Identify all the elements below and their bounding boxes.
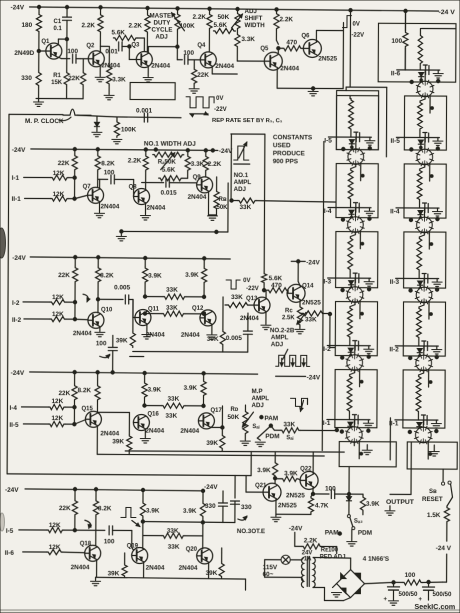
- svg-text:3.9K: 3.9K: [148, 273, 162, 280]
- svg-text:330: 330: [205, 503, 216, 510]
- svg-text:II-2: II-2: [12, 317, 22, 324]
- ground bridge: [331, 584, 341, 597]
- svg-text:39K: 39K: [108, 570, 120, 577]
- wire vertical x252: [250, 452, 252, 476]
- svg-text:2N404: 2N404: [71, 564, 90, 571]
- wire II-6 set line: [429, 95, 431, 113]
- svg-text:33K: 33K: [166, 287, 178, 294]
- ground II-5: [433, 138, 443, 146]
- wire Q22 collector: [312, 452, 314, 473]
- wire Q4 emitter: [212, 67, 237, 74]
- svg-text:-24V: -24V: [11, 370, 25, 377]
- node cell I-3 box: [336, 232, 378, 288]
- wire Q16 emitter: [144, 429, 146, 437]
- resistor RB 50K: [214, 177, 228, 211]
- svg-text:-22V: -22V: [351, 33, 364, 39]
- transistor I-3 cell: [346, 286, 364, 304]
- transistor I-4 cell: [347, 216, 365, 234]
- node I-4 label: [324, 208, 332, 215]
- transistor II-5 cell: [416, 148, 434, 166]
- svg-text:2N404: 2N404: [146, 205, 165, 212]
- resistor 3.9K row4 b: [183, 373, 206, 406]
- svg-text:0V: 0V: [216, 96, 223, 102]
- transistor I-2 cell: [346, 354, 364, 372]
- svg-text:0.01: 0.01: [105, 48, 118, 55]
- svg-text:PAM: PAM: [264, 415, 278, 422]
- wire I-1 set line: [358, 441, 360, 459]
- resistor 8.2K row4: [77, 372, 100, 412]
- svg-text:2N525: 2N525: [318, 55, 337, 62]
- node PAM ped: [325, 529, 342, 536]
- wire I column top entry: [346, 87, 387, 91]
- svg-text:Q17: Q17: [210, 408, 222, 414]
- wire II-3 gate row: [396, 277, 439, 279]
- svg-text:OUTPUT: OUTPUT: [386, 499, 415, 506]
- wire -24V rail 2: [31, 147, 218, 152]
- svg-text:5.6K: 5.6K: [269, 275, 283, 282]
- ground Q16: [140, 439, 150, 443]
- resistor II-5 coupling: [417, 97, 425, 138]
- node II-6 label: [391, 70, 401, 77]
- ground Q9: [207, 216, 217, 220]
- diode I-1: [348, 420, 355, 427]
- svg-text:22K: 22K: [59, 390, 71, 397]
- svg-text:ADJ: ADJ: [234, 186, 247, 193]
- svg-text:2N404: 2N404: [100, 430, 119, 437]
- svg-text:PRODUCE: PRODUCE: [273, 150, 306, 157]
- resistor 5.6K to shift pot: [213, 14, 235, 34]
- resistor 12K II-5: [48, 420, 85, 427]
- capacitor C1 0.1: [53, 7, 71, 39]
- svg-text:NO.1 WIDTH ADJ: NO.1 WIDTH ADJ: [144, 141, 196, 148]
- potentiometer RD 50K: [227, 405, 253, 440]
- svg-text:I-5: I-5: [6, 528, 14, 535]
- capacitor 100 coupling Q3-Q4: [177, 47, 200, 65]
- svg-text:33K: 33K: [231, 294, 243, 301]
- svg-text:180: 180: [21, 22, 32, 29]
- node ADJ SHIFT WIDTH: [244, 8, 265, 29]
- svg-text:100: 100: [104, 538, 115, 545]
- resistor 2.2K Q5: [274, 9, 294, 40]
- svg-text:CONSTANTS: CONSTANTS: [273, 134, 313, 141]
- resistor 33K row5: [143, 522, 203, 551]
- wire I-2 gate row: [327, 345, 370, 347]
- node II-2 label: [389, 346, 399, 353]
- node switch SA2: [347, 515, 372, 537]
- resistor 2.2K Q4: [192, 9, 212, 52]
- capacitor 0.01 coupling Q2-Q3: [105, 42, 136, 60]
- svg-text:I-1: I-1: [12, 175, 20, 182]
- resistor 12K II-6: [47, 549, 85, 554]
- wire Q7 emitter: [98, 202, 100, 212]
- transistor Q2 2N404: [80, 43, 120, 69]
- svg-text:22K: 22K: [197, 72, 209, 79]
- wire Q22 emitter: [311, 487, 314, 496]
- svg-text:WIDTH: WIDTH: [244, 22, 265, 29]
- resistor 39K row4 b: [206, 406, 225, 451]
- wire Q9 emitter: [208, 191, 216, 215]
- wire Q10 collector: [96, 294, 123, 313]
- svg-text:I-5: I-5: [324, 137, 332, 144]
- resistor 3.3K: [104, 46, 126, 100]
- potentiometer RC 2.5K: [282, 300, 306, 328]
- svg-text:3.9K: 3.9K: [148, 387, 162, 394]
- svg-text:0V: 0V: [243, 278, 250, 284]
- svg-text:I-2: I-2: [12, 300, 20, 307]
- svg-text:-24V: -24V: [12, 255, 26, 262]
- wire I col bottom drop: [354, 442, 411, 454]
- node II-1 label: [389, 420, 399, 427]
- potentiometer 100K: [171, 8, 195, 46]
- resistor 4.7K: [308, 494, 329, 515]
- wire II-5 gate row: [396, 136, 439, 138]
- wire row4 bottom bus: [125, 451, 344, 452]
- svg-text:22K: 22K: [59, 505, 71, 512]
- wire clock bus: [77, 115, 181, 118]
- svg-text:3.9K: 3.9K: [146, 508, 160, 515]
- svg-text:II-2: II-2: [389, 346, 399, 353]
- node -24V label left: [11, 4, 25, 11]
- resistor 3.9K out b: [275, 470, 301, 481]
- transistor Q4 2N404: [197, 43, 234, 70]
- resistor 3.9K row3 b: [185, 258, 207, 297]
- svg-text:100: 100: [183, 50, 194, 57]
- svg-text:Q19: Q19: [127, 543, 139, 549]
- svg-text:2N525: 2N525: [302, 299, 321, 306]
- svg-text:I-4: I-4: [324, 208, 332, 215]
- svg-text:3.3K: 3.3K: [241, 36, 255, 43]
- wire Q3 collector out: [148, 45, 179, 53]
- svg-text:2.2K: 2.2K: [304, 537, 318, 544]
- svg-text:Q16: Q16: [147, 412, 159, 418]
- svg-text:-24 V: -24 V: [439, 9, 456, 16]
- svg-text:Q20: Q20: [186, 547, 198, 553]
- svg-text:II-1: II-1: [12, 196, 22, 203]
- resistor 5.6K row2: [159, 167, 188, 181]
- wire inter-column vertical: [385, 87, 387, 156]
- ground column II bottom: [429, 445, 439, 456]
- svg-text:-24V: -24V: [307, 374, 321, 381]
- wire secondary top: [313, 557, 351, 569]
- wire tap to I-2: [330, 314, 335, 348]
- svg-text:3.3K: 3.3K: [191, 161, 205, 168]
- resistor II-4 coupling: [417, 165, 425, 208]
- node NO.3OT.E: [237, 516, 265, 535]
- svg-text:22K: 22K: [58, 160, 70, 167]
- node lamp: [265, 555, 302, 564]
- node PDM waveform row4: [290, 398, 307, 411]
- wire II-5 set line: [429, 163, 431, 181]
- node 115V 60hz: [263, 564, 278, 578]
- resistor 39K row5 a: [108, 553, 128, 578]
- node II-1 dots: [408, 429, 438, 456]
- capacitor 100 coupling Q1-Q2: [67, 48, 80, 63]
- wire secondary bottom: [313, 587, 351, 600]
- node II-1 input: [12, 191, 65, 203]
- transistor II-6 cell: [416, 80, 434, 98]
- node switch SB RESET: [422, 481, 453, 503]
- diode II-4: [418, 208, 425, 217]
- svg-text:100: 100: [405, 572, 416, 579]
- svg-text:5.6K: 5.6K: [111, 29, 125, 36]
- capacitor 500/50 b: [418, 580, 452, 603]
- wire Q1 collector: [58, 37, 68, 44]
- transistor Q3 2N404: [131, 42, 170, 69]
- svg-text:2.2K: 2.2K: [208, 161, 222, 168]
- transistor Q12 2N404: [181, 306, 216, 339]
- svg-text:8.2K: 8.2K: [78, 387, 92, 394]
- resistor 8.2K row2: [95, 149, 115, 187]
- wire I-2 set line: [359, 369, 361, 387]
- wire Q3 emitter: [147, 66, 149, 76]
- wire Q13 emitter: [265, 312, 267, 324]
- capacitor II-5: [423, 133, 429, 143]
- svg-text:2N404: 2N404: [179, 565, 198, 572]
- potentiometer 50K shift: [231, 9, 242, 30]
- node 24V 1A: [302, 550, 313, 562]
- svg-text:330: 330: [21, 75, 32, 82]
- transistor II-1 cell: [414, 426, 432, 444]
- svg-text:500/50: 500/50: [432, 591, 452, 598]
- wire Q21 base: [246, 476, 263, 493]
- ground I-4: [364, 208, 374, 216]
- wire II-1 set line: [427, 441, 429, 459]
- ground bottom bus: [91, 577, 101, 585]
- transistor Q18 2N404: [71, 541, 101, 571]
- resistor 33K row3 a: [143, 287, 205, 300]
- resistor 3.9K out a: [257, 452, 278, 484]
- wire Q2 collector: [100, 33, 108, 52]
- diode I-3: [349, 278, 356, 287]
- capacitor 0.015: [161, 178, 197, 197]
- node I-1 dots: [340, 428, 370, 455]
- svg-text:470: 470: [271, 282, 282, 289]
- node II-2 dots: [408, 355, 438, 384]
- svg-text:Q12: Q12: [192, 306, 204, 312]
- svg-text:470: 470: [286, 39, 297, 46]
- node cell II-5 box: [404, 96, 446, 150]
- svg-text:Q6: Q6: [301, 33, 310, 39]
- wire Q8 emitter: [144, 203, 146, 214]
- svg-text:2N404: 2N404: [73, 330, 92, 337]
- svg-text:100: 100: [104, 169, 115, 176]
- resistor 3.9K row4 a: [142, 373, 162, 406]
- resistor 3.3K row2: [185, 150, 205, 178]
- resistor 39K row3 a: [116, 299, 136, 347]
- svg-text:15K: 15K: [51, 80, 63, 86]
- resistor 33K no1: [230, 198, 336, 212]
- capacitor I-3: [353, 273, 359, 283]
- svg-text:Rᴄ: Rᴄ: [285, 308, 293, 314]
- wire Q19 emitter: [143, 562, 145, 577]
- ground RC: [295, 329, 305, 333]
- resistor 2.2K Q3: [128, 8, 150, 52]
- wire -24V rail 3: [30, 255, 230, 260]
- capacitor II-6: [423, 65, 429, 75]
- svg-text:900 PPS: 900 PPS: [273, 158, 299, 165]
- wire between columns: [389, 418, 391, 460]
- svg-text:0.1: 0.1: [53, 26, 62, 32]
- capacitor II-1: [421, 415, 427, 425]
- ground I-1: [363, 420, 373, 428]
- node PDM contact: [257, 433, 279, 440]
- capacitor 100 row3: [96, 335, 118, 372]
- svg-text:3.9K: 3.9K: [183, 508, 197, 515]
- capacitor I-1: [352, 415, 358, 425]
- node rep-rate waveform: [186, 96, 227, 113]
- node watermark: [414, 602, 455, 611]
- transistor Q8 2N404: [128, 184, 165, 211]
- resistor 3.9K row5 a: [140, 490, 160, 522]
- node II-3 dots: [409, 287, 439, 315]
- svg-text:II-6: II-6: [391, 70, 401, 77]
- ground feedback row2: [116, 236, 126, 240]
- resistor I-3 coupling: [348, 232, 356, 278]
- svg-text:SeekIC.com: SeekIC.com: [414, 602, 455, 611]
- svg-text:3.9K: 3.9K: [184, 385, 198, 392]
- svg-text:33K: 33K: [165, 413, 177, 420]
- resistor 3.3K Q5 base: [235, 30, 265, 61]
- resistor 3.9K output: [360, 496, 380, 512]
- node PDM waveform big: [276, 355, 310, 366]
- svg-text:5.6K: 5.6K: [213, 22, 227, 29]
- svg-text:Q4: Q4: [197, 43, 206, 49]
- svg-text:100K: 100K: [179, 23, 195, 30]
- wire I-4 gate row: [328, 207, 371, 209]
- svg-text:22K: 22K: [68, 75, 80, 82]
- wire Q5 collector: [276, 40, 280, 54]
- wire Q8 collector: [142, 183, 164, 191]
- ground II-4: [432, 208, 442, 216]
- potentiometer RE 100: [320, 546, 346, 560]
- svg-text:Q10: Q10: [101, 307, 113, 313]
- svg-text:Sₐ₂: Sₐ₂: [354, 519, 363, 525]
- ground II-6: [433, 70, 443, 78]
- ground I-5: [365, 137, 375, 145]
- svg-text:AMPL: AMPL: [251, 395, 269, 402]
- svg-text:3.9K: 3.9K: [366, 501, 380, 508]
- svg-text:-24V: -24V: [289, 525, 303, 532]
- capacitor 330 NO.3OTE: [230, 476, 252, 523]
- node II-2 input: [12, 311, 64, 324]
- resistor 2.2K row2: [128, 150, 149, 183]
- wire Q12 emitter: [211, 324, 213, 333]
- node cell II-1 box: [403, 370, 445, 428]
- node CONSTANTS text: [273, 134, 313, 165]
- svg-text:NO.3OT.E: NO.3OT.E: [237, 528, 265, 535]
- resistor 39K row3 b: [207, 297, 226, 352]
- capacitor I-2: [353, 341, 359, 351]
- node II-6 input: [5, 544, 61, 557]
- svg-text:RESET: RESET: [422, 496, 443, 503]
- svg-text:II-5: II-5: [9, 422, 19, 429]
- node pulse glyph row5: [121, 507, 140, 526]
- diode II-3: [418, 278, 425, 287]
- node column I top box: [336, 91, 378, 150]
- capacitor 100 out: [313, 485, 363, 498]
- wire Q1 base: [37, 33, 46, 71]
- wire Q7 collector: [98, 179, 108, 189]
- svg-text:Q7: Q7: [83, 184, 92, 190]
- node cell I-4 box: [336, 164, 378, 218]
- resistor R1 15K: [51, 39, 69, 99]
- svg-text:500/50: 500/50: [398, 591, 418, 598]
- capacitor 500/50 a: [383, 582, 418, 603]
- resistor 330: [21, 71, 41, 99]
- ground 22K Q4: [189, 89, 199, 93]
- node clock spike waveform: [63, 109, 91, 115]
- node I-2 label: [323, 346, 331, 353]
- svg-text:50K: 50K: [217, 14, 229, 21]
- svg-text:39K: 39K: [206, 440, 218, 447]
- resistor 33K q13: [225, 294, 254, 308]
- wire Q18 emitter: [96, 560, 98, 577]
- node II-5 label: [390, 138, 400, 145]
- ground clock diode: [92, 132, 102, 136]
- ground Q8: [140, 216, 150, 220]
- node I-3 label: [324, 278, 332, 285]
- ground Q10: [95, 332, 105, 336]
- svg-text:2.2K: 2.2K: [81, 22, 95, 29]
- wire I-5 set line: [360, 163, 362, 181]
- wire reset to -24V: [436, 523, 452, 582]
- node NO.1 WIDTH ADJ: [144, 141, 196, 148]
- node MASTER DUTY CYCLE ADJ: [149, 13, 176, 41]
- diode I-4: [349, 208, 356, 217]
- wire Q15 emitter: [96, 426, 98, 454]
- svg-text:2N404: 2N404: [240, 315, 259, 322]
- resistor 1.5K reset: [427, 497, 453, 523]
- svg-text:ADJ: ADJ: [245, 8, 258, 15]
- resistor 33K q14: [300, 311, 332, 324]
- resistor 12K I-5: [47, 527, 105, 533]
- svg-text:3.9K: 3.9K: [257, 467, 271, 474]
- svg-text:12K: 12K: [51, 398, 63, 405]
- svg-text:100: 100: [325, 486, 336, 493]
- svg-text:M.P: M.P: [252, 388, 263, 395]
- resistor 470: [278, 39, 302, 51]
- svg-text:0.005: 0.005: [226, 335, 242, 342]
- svg-text:AMPL: AMPL: [271, 334, 289, 341]
- wire I-3 set line: [359, 301, 361, 319]
- transistor Q7 2N404: [82, 184, 119, 210]
- svg-text:39K: 39K: [116, 337, 128, 344]
- wire bottom bus row5: [96, 577, 246, 590]
- svg-text:REP RATE SET BY R₁, C₁: REP RATE SET BY R₁, C₁: [212, 118, 283, 124]
- svg-text:0.001: 0.001: [136, 108, 152, 115]
- transistor Q5 2N404: [260, 46, 299, 72]
- transistor Q16 2N404: [133, 411, 164, 434]
- node cell II-3 box: [404, 232, 446, 288]
- svg-text:-24V: -24V: [11, 4, 25, 11]
- wire row5 mid bus: [141, 520, 235, 524]
- transistor Q17 2N404: [180, 408, 222, 435]
- capacitor 0.005 row3: [114, 284, 135, 317]
- node NO.2-2B AMPL ADJ: [270, 327, 295, 359]
- node II-4 dots: [409, 217, 439, 246]
- node NO.1 AMPL ADJ: [234, 172, 252, 193]
- ground Q12: [207, 335, 217, 339]
- node column I bottom box: [339, 442, 396, 467]
- transistor II-4 cell: [416, 216, 434, 234]
- svg-text:100: 100: [391, 38, 402, 45]
- svg-text:2N404: 2N404: [100, 203, 119, 210]
- transistor II-3 cell: [415, 286, 433, 304]
- resistor 22K row4: [58, 372, 77, 407]
- svg-text:DUTY: DUTY: [153, 20, 171, 27]
- svg-text:33K: 33K: [168, 544, 180, 551]
- capacitor 0.005 row3 b: [226, 313, 253, 352]
